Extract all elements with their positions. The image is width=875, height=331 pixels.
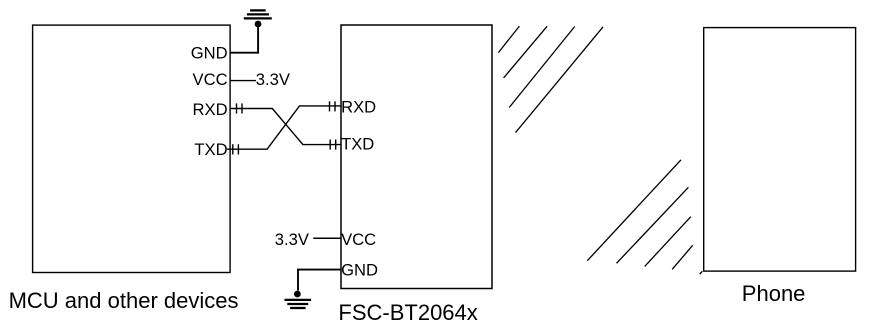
svg-text:VCC: VCC bbox=[341, 230, 376, 249]
ticks: FSC TXD bbox=[330, 140, 336, 150]
RF link slash 9 (tiny, near Phone corner) bbox=[700, 271, 703, 274]
ground (FSC-BT2064x, pointing down) bbox=[285, 300, 312, 308]
RF link slash 6 (bottom group) bbox=[617, 187, 689, 263]
ticks: MCU RXD bbox=[237, 103, 243, 113]
RF link slash 5 (bottom group) bbox=[587, 160, 681, 261]
RF link slash 1 (top group) bbox=[498, 26, 519, 52]
block: MCU and other devices bbox=[33, 25, 231, 272]
ticks: FSC RXD bbox=[330, 101, 336, 111]
svg-text:GND: GND bbox=[191, 44, 228, 63]
ground (MCU, pointing up) bbox=[244, 10, 272, 18]
svg-text:TXD: TXD bbox=[194, 140, 227, 159]
wire: 3.3V to FSC VCC bbox=[313, 237, 341, 239]
block: Phone bbox=[704, 28, 856, 272]
svg-text:3.3V: 3.3V bbox=[256, 70, 290, 89]
wire: MCU TXD to FSC RXD (crossover) bbox=[227, 106, 341, 149]
junction dot: MCU ground bbox=[255, 21, 262, 28]
svg-text:TXD: TXD bbox=[341, 135, 374, 154]
svg-text:Phone: Phone bbox=[742, 281, 806, 306]
block U1: FSC-BT2064x bbox=[341, 25, 492, 289]
svg-text:GND: GND bbox=[341, 260, 378, 279]
svg-text:VCC: VCC bbox=[193, 70, 228, 89]
wire: MCU VCC to 3.3V bbox=[230, 80, 256, 82]
RF link slash 3 (top group) bbox=[509, 27, 575, 108]
svg-text:RXD: RXD bbox=[341, 98, 376, 117]
RF link slash 4 (top group) bbox=[516, 27, 604, 133]
svg-text:MCU and other devices: MCU and other devices bbox=[9, 288, 239, 313]
RF link slash 8 (bottom group) bbox=[672, 245, 693, 269]
ticks: MCU TXD bbox=[233, 144, 239, 154]
RF link slash 2 (top group) bbox=[504, 26, 547, 78]
wire: MCU GND to ground bbox=[230, 27, 259, 53]
RF link slash 7 (bottom group) bbox=[645, 217, 691, 267]
svg-text:FSC-BT2064x: FSC-BT2064x bbox=[338, 300, 477, 325]
wire: FSC GND to ground bbox=[298, 270, 341, 291]
svg-text:3.3V: 3.3V bbox=[275, 230, 309, 249]
wire: MCU RXD to FSC TXD (crossover) bbox=[230, 109, 341, 145]
junction dot: FSC ground bbox=[294, 291, 301, 298]
svg-text:RXD: RXD bbox=[193, 100, 228, 119]
